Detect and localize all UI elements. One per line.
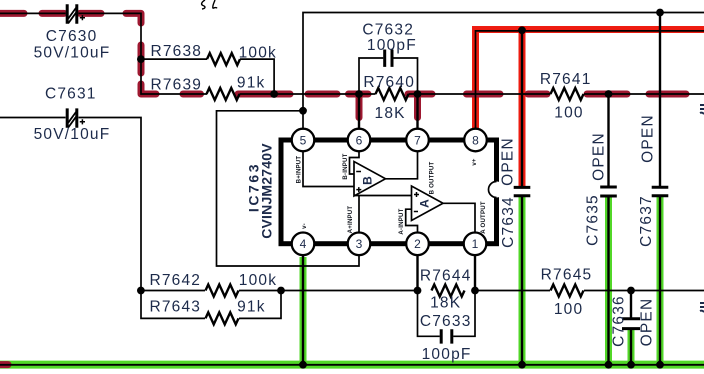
cut-off glyphs at right edge (upper) bbox=[700, 105, 704, 114]
maroon dashed highlight: mid horizontal net y=94 bbox=[183, 94, 686, 118]
resistor R7641 bbox=[551, 88, 584, 100]
svg-text:100k: 100k bbox=[239, 272, 277, 289]
svg-text:2: 2 bbox=[414, 237, 421, 251]
op-amp internal: A output to pin1 bbox=[443, 203, 475, 232]
wire: C7637 vertical from top net bbox=[659, 13, 661, 187]
maroon dash: left end of ground bus bbox=[0, 361, 8, 368]
svg-text:C7635: C7635 bbox=[584, 194, 601, 246]
op-amp internal: B output to pin7 bbox=[386, 152, 418, 179]
capacitor C7630 bbox=[67, 4, 85, 23]
capacitor C7633 loop bbox=[418, 291, 476, 337]
resistor R7643 branch bbox=[141, 291, 281, 319]
red highlight: pin8 net to V+ rail bbox=[476, 30, 704, 129]
resistor R7638 branch wire bbox=[141, 59, 274, 94]
wire: top-right horizontal bbox=[303, 13, 704, 129]
wire: C7634 vertical black core bbox=[521, 31, 523, 186]
pin 3 bbox=[348, 233, 371, 256]
resistor R7644 bbox=[432, 285, 465, 297]
wire: C7630 right to corner, down, and main y=94 net bbox=[79, 13, 208, 94]
svg-text:OPEN: OPEN bbox=[500, 137, 517, 186]
wire: pin6 / pin7 stubs bbox=[359, 94, 418, 129]
svg-text:R7643: R7643 bbox=[149, 299, 201, 316]
svg-text:R7641: R7641 bbox=[540, 71, 592, 88]
svg-text:v-: v- bbox=[301, 223, 308, 229]
pin4 ground stub bbox=[302, 255, 304, 365]
svg-text:3: 3 bbox=[356, 237, 363, 251]
IC763 label box wire (pin3 feedback route) bbox=[217, 111, 360, 266]
wire: black core of red net (pin8 to rail) bbox=[476, 31, 704, 129]
pin 2 bbox=[406, 233, 429, 256]
capacitor C7635 bbox=[600, 187, 617, 196]
svg-text:50V/10uF: 50V/10uF bbox=[34, 126, 111, 143]
svg-text:100pF: 100pF bbox=[422, 346, 472, 363]
svg-text:100pF: 100pF bbox=[367, 37, 417, 54]
svg-text:v+: v+ bbox=[471, 158, 478, 166]
svg-text:R7644: R7644 bbox=[420, 268, 472, 285]
svg-text:4: 4 bbox=[300, 237, 307, 251]
svg-text:100: 100 bbox=[554, 301, 583, 318]
svg-text:A: A bbox=[417, 199, 431, 208]
svg-text:50V/10uF: 50V/10uF bbox=[34, 45, 111, 62]
svg-text:C7634: C7634 bbox=[500, 196, 517, 248]
resistor R7638 bbox=[207, 53, 240, 65]
svg-text:18K: 18K bbox=[375, 105, 406, 122]
svg-text:C7630: C7630 bbox=[46, 28, 98, 45]
svg-text:B: B bbox=[360, 176, 374, 185]
svg-text:C7636: C7636 bbox=[611, 295, 628, 347]
ground bus black core bbox=[0, 364, 704, 366]
IC763 body bbox=[281, 140, 497, 244]
op-amp internal: pin5 to B+ input bbox=[303, 152, 354, 187]
svg-text:7: 7 bbox=[414, 133, 421, 147]
op-amp internal: A+ input wire and pin3 stub bbox=[355, 196, 412, 233]
pin 7 bbox=[406, 129, 429, 152]
wire: y=94 net segments bbox=[240, 93, 704, 95]
svg-text:C7631: C7631 bbox=[45, 86, 97, 103]
svg-text:100k: 100k bbox=[239, 45, 277, 62]
pin 1 bbox=[464, 233, 487, 256]
svg-text:B-INPUT: B-INPUT bbox=[342, 153, 349, 179]
wire: C7634 lower black core bbox=[521, 197, 523, 365]
capacitor C7637 bbox=[652, 187, 669, 196]
capacitor C7636 bbox=[630, 291, 632, 318]
svg-text:OPEN: OPEN bbox=[638, 298, 655, 347]
svg-text:R7639: R7639 bbox=[150, 77, 202, 94]
svg-text:R7638: R7638 bbox=[150, 43, 202, 60]
svg-text:6: 6 bbox=[356, 133, 363, 147]
svg-text:1: 1 bbox=[472, 237, 479, 251]
cut-off glyphs at right edge (lower) bbox=[700, 303, 704, 312]
green highlight: C7635 lower bbox=[605, 197, 612, 365]
maroon dashed highlight: top-left wire bbox=[0, 13, 156, 94]
svg-text:A+INPUT: A+INPUT bbox=[347, 206, 354, 234]
op-amp A bbox=[412, 186, 444, 221]
green highlight: C7637 lower bbox=[657, 196, 664, 364]
svg-text:8: 8 bbox=[472, 133, 479, 147]
svg-text:R7640: R7640 bbox=[363, 74, 415, 91]
svg-text:18K: 18K bbox=[430, 295, 461, 312]
green highlight: C7634 lower bbox=[519, 196, 526, 365]
svg-text:A OUTPUT: A OUTPUT bbox=[480, 201, 487, 234]
capacitor C7631 bbox=[67, 108, 85, 127]
green highlight: ground bus bbox=[0, 361, 704, 369]
red highlight: C7634 upper bbox=[519, 30, 526, 187]
wire: top-left horizontal (to C7630) bbox=[0, 12, 66, 14]
op-amp internal: pin6 to B- input bbox=[350, 152, 360, 175]
svg-text:R7642: R7642 bbox=[149, 272, 201, 289]
svg-text:C7633: C7633 bbox=[420, 313, 472, 330]
svg-text:C7632: C7632 bbox=[362, 22, 414, 39]
pin 8 bbox=[464, 129, 487, 152]
svg-text:R7645: R7645 bbox=[541, 267, 593, 284]
svg-text:OPEN: OPEN bbox=[590, 132, 607, 181]
pin 4 bbox=[292, 233, 315, 256]
pin 6 bbox=[348, 129, 371, 152]
capacitor C7635 upper wire bbox=[607, 94, 609, 186]
cut-off glyphs at top edge bbox=[202, 0, 217, 9]
wire: C7631 horizontal bbox=[0, 117, 66, 119]
resistor R7639 bbox=[207, 88, 240, 100]
svg-text:B+INPUT: B+INPUT bbox=[296, 156, 303, 184]
IC notch bbox=[489, 182, 505, 198]
svg-text:C7637: C7637 bbox=[638, 195, 655, 247]
svg-text:91k: 91k bbox=[237, 75, 266, 92]
green highlight: C7636 lower bbox=[628, 329, 635, 365]
svg-text:B OUTPUT: B OUTPUT bbox=[429, 162, 436, 195]
svg-text:100: 100 bbox=[554, 105, 583, 122]
svg-text:OPEN: OPEN bbox=[640, 114, 657, 163]
svg-text:A-INPUT: A-INPUT bbox=[398, 208, 405, 234]
resistor R7640 bbox=[376, 88, 409, 100]
wire: bottom horizontal net y=290.5 bbox=[141, 290, 704, 292]
op-amp B bbox=[354, 162, 386, 197]
resistor R7642 bbox=[206, 285, 239, 297]
green highlight: pin4 stub bbox=[300, 257, 307, 365]
svg-text:91k: 91k bbox=[237, 299, 266, 316]
capacitor C7632 loop bbox=[359, 58, 418, 94]
pin 5 bbox=[292, 129, 315, 152]
resistor R7645 bbox=[551, 285, 584, 297]
op-amp internal: pin2 to A- input bbox=[406, 209, 418, 232]
pin2 / pin1 stubs bbox=[418, 255, 476, 291]
svg-text:CVINJM2740V: CVINJM2740V bbox=[258, 143, 274, 239]
svg-text:5: 5 bbox=[300, 133, 307, 147]
capacitor C7634 bbox=[514, 187, 531, 195]
